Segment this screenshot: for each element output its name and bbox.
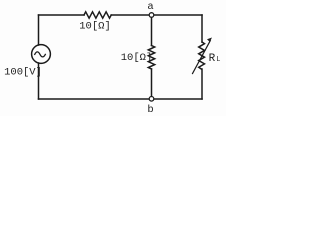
svg-text:R: R	[209, 53, 216, 65]
wire left side lower	[38, 63, 40, 99]
wire right side lower	[201, 69, 203, 99]
node b terminal circle	[149, 97, 154, 102]
svg-text:b: b	[147, 104, 153, 116]
ac source sine symbol	[35, 52, 46, 57]
resistor R1 (10 ohm, top)	[84, 12, 111, 18]
wire bottom	[39, 98, 203, 100]
wire resistor R1 to top-right corner	[111, 14, 202, 16]
svg-text:100[V]: 100[V]	[4, 66, 42, 78]
svg-text:a: a	[147, 1, 153, 13]
arrow of variable resistor RL	[193, 41, 211, 74]
wire left side upper	[38, 15, 40, 45]
svg-text:L: L	[216, 56, 220, 64]
variable resistor RL zigzag	[199, 42, 205, 69]
node a terminal circle	[149, 13, 154, 18]
wire middle branch upper (node a to resistor)	[151, 15, 153, 46]
svg-text:10[Ω]: 10[Ω]	[121, 52, 153, 64]
resistor R2 (10 ohm, middle vertical)	[148, 46, 154, 70]
wire top-left to resistor R1	[39, 14, 85, 16]
ac source V1 circle	[32, 45, 51, 64]
wire middle branch lower (resistor to node b)	[151, 69, 153, 99]
svg-text:10[Ω]: 10[Ω]	[79, 21, 111, 33]
arrowhead of variable resistor RL	[207, 38, 212, 43]
wire right side upper	[201, 15, 203, 42]
